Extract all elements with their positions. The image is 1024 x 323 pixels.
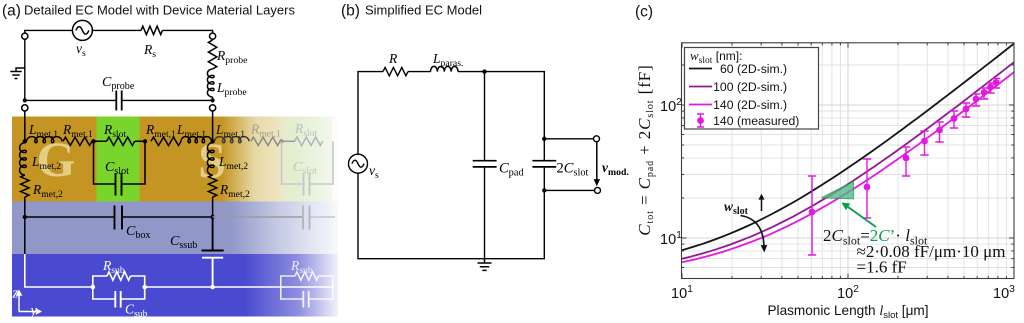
svg-text:(2D-sim.): (2D-sim.) (737, 98, 787, 112)
svg-text:102: 102 (660, 97, 682, 115)
substrate layer background (12, 254, 338, 317)
curve: 60nm 2D-sim (black) (682, 44, 1014, 251)
node (output bottom, panel b) (542, 188, 546, 192)
svg-text:Ctot = Cpad + 2Cslot [fF]: Ctot = Cpad + 2Cslot [fF] (635, 64, 656, 235)
svg-text:R: R (388, 51, 398, 66)
svg-text:wslot: wslot (724, 199, 749, 217)
svg-text:Plasmonic Length lslot [μm]: Plasmonic Length lslot [μm] (767, 303, 928, 321)
resistor Rsub (white) (107, 272, 131, 280)
svg-text:Rprobe: Rprobe (216, 48, 247, 66)
svg-text:vs: vs (369, 163, 379, 181)
svg-text:(c): (c) (635, 4, 653, 21)
faded inductor Lmet,1 (repeat cell) (215, 137, 250, 143)
wire: node to Rslot (92, 140, 146, 142)
plot frame (682, 43, 1015, 279)
inductor Lmet,2 (left) (20, 143, 27, 175)
svg-text:(a): (a) (2, 3, 21, 20)
capacitor Csub (white) (115, 291, 120, 308)
svg-text:140: 140 (713, 114, 734, 128)
resistor Rmet,2 (right) (208, 175, 216, 197)
svg-text:103: 103 (993, 284, 1015, 302)
node (right, Cbox row) (210, 215, 214, 219)
svg-text:Lparas.: Lparas. (432, 51, 463, 69)
legend entry 60 (black line) (689, 68, 712, 70)
resistor R (panel b) (383, 67, 408, 75)
curved arrow across curves (741, 216, 765, 247)
faded resistor Rmet,1 (repeat cell) (251, 137, 280, 145)
legend entry 140 measured (marker) (697, 114, 704, 127)
AC source vs (72, 20, 92, 40)
capacitor Cssub (top plate + stem) (202, 217, 224, 251)
svg-text:Simplified EC Model: Simplified EC Model (365, 3, 482, 18)
svg-text:2Cslot: 2Cslot (557, 161, 589, 179)
faded capacitor Cbox (repeat cell) (303, 206, 310, 230)
node S (right electrode) (210, 139, 214, 143)
svg-text:Detailed EC Model with Device: Detailed EC Model with Device Material L… (24, 3, 295, 18)
inductor Lmet,1 (left) (27, 137, 63, 143)
legend box (685, 48, 819, 130)
metal layer background (gold) (12, 117, 338, 202)
plot minor gridlines (682, 43, 1015, 279)
svg-text:(measured): (measured) (737, 114, 799, 128)
node (signal, substrate row) (210, 285, 215, 290)
capacitor Cssub (bottom plate, white) (202, 258, 223, 287)
legend entry 100 (purple line) (689, 86, 712, 88)
svg-text:140: 140 (713, 98, 734, 112)
resistor Rslot (107, 137, 135, 145)
inductor Lparas (panel b) (431, 66, 459, 71)
Rsub/Csub parallel bracket (white) (93, 276, 145, 299)
faded wire + node (repeat cell) (280, 140, 295, 142)
wire: right branch to Cbox row (212, 197, 214, 217)
node (right, substrate row) (142, 285, 147, 290)
curve: 100nm 2D-sim (purple) (682, 62, 1014, 259)
inductor Lmet,1 (right) (181, 137, 212, 143)
svg-text:vs: vs (76, 41, 86, 59)
svg-text:(2D-sim.): (2D-sim.) (737, 80, 787, 94)
slot region background (green stripe) (97, 117, 140, 202)
svg-text:100: 100 (713, 80, 734, 94)
svg-text:101: 101 (671, 284, 693, 302)
measured data points with error bars (magenta) (808, 79, 1000, 256)
resistor Rs (141, 26, 162, 34)
legend entry 140 (magenta line) (689, 104, 712, 106)
wire: left pad into metal layer (24, 111, 26, 141)
resistor Rmet,2 (left) (21, 175, 29, 197)
terminal node (top right) (210, 33, 216, 39)
resistor Rmet,1 (right) (151, 137, 181, 145)
svg-text:Cpad: Cpad (499, 161, 525, 179)
resistor Rprobe (208, 40, 216, 69)
svg-text:z: z (12, 286, 19, 302)
inductor Lprobe (207, 69, 214, 97)
wire: top loop of probe circuit (25, 30, 213, 100)
svg-text:Lprobe: Lprobe (216, 80, 247, 98)
node (output top, panel b) (542, 137, 546, 141)
ground (probe circuit) (10, 68, 24, 79)
capacitor Cslot with bracket (94, 141, 146, 184)
terminal (right pad) (210, 105, 216, 111)
terminal (output top) (594, 136, 600, 142)
svg-text:101: 101 (660, 230, 682, 248)
coordinate axes z,y (16, 290, 42, 315)
faded Rsub/Csub bracket (repeat cell, white) (281, 258, 333, 308)
node (left, substrate row) (91, 285, 96, 290)
faded second slot region (green) (276, 117, 332, 202)
resistor Rmet,1 (left) (63, 137, 92, 145)
wire: Cprobe row (25, 99, 213, 101)
wire: left branch in substrate (white) (25, 254, 93, 287)
node A (left slot junction) (91, 139, 95, 143)
faded wire Cbox row (repeat cell) (213, 216, 303, 218)
svg-text:=1.6 fF: =1.6 fF (857, 258, 907, 277)
wire: right pad into metal layer (212, 111, 214, 141)
svg-text:60: 60 (720, 62, 734, 76)
svg-text:102: 102 (837, 284, 859, 302)
node G (left electrode) (23, 139, 27, 143)
curve: 140nm 2D-sim (magenta) (682, 72, 1014, 262)
plot major gridlines (682, 43, 1015, 279)
terminal (output bottom) (595, 187, 601, 193)
node (left, Cbox row) (23, 215, 27, 219)
wire: Cbox row (25, 216, 213, 218)
wire: left branch to Cbox row (24, 197, 26, 217)
svg-text:(b): (b) (341, 3, 360, 20)
svg-text:(2D-sim.): (2D-sim.) (737, 62, 787, 76)
svg-text:y: y (29, 303, 38, 319)
wire: substrate row (white) (145, 286, 334, 288)
node (right, Cprobe row) (211, 98, 215, 102)
faded capacitor Cslot bracket (repeat cell) (282, 141, 334, 184)
axis tick marks (682, 43, 1015, 279)
wire: panel b main loop (358, 72, 595, 259)
vmod arrow (596, 143, 598, 181)
node (left, Cprobe row) (23, 98, 27, 102)
svg-text:Cprobe: Cprobe (102, 75, 135, 92)
green slope triangle annotation (822, 182, 854, 199)
svg-text:vmod.: vmod. (602, 160, 629, 178)
svg-text:Rs: Rs (143, 42, 156, 60)
green annotation arrow (846, 206, 876, 228)
inductor Lmet,2 (right) (207, 143, 214, 175)
faded resistor Rslot (repeat cell) (295, 137, 323, 145)
capacitor Cpad (473, 161, 497, 167)
capacitor 2Cslot (532, 161, 556, 167)
capacitor Cbox (115, 206, 123, 230)
terminal (left pad) (22, 105, 28, 111)
node B (right slot junction) (143, 139, 147, 143)
terminal node (top left) (22, 33, 28, 39)
capacitor Cprobe (116, 91, 121, 111)
AC source vs (panel b) (349, 154, 368, 173)
BOX layer background (12, 202, 338, 255)
wire: left branch through BOX (24, 217, 26, 254)
ground (panel b) (478, 259, 492, 271)
node (top junction, panel b) (482, 69, 486, 73)
